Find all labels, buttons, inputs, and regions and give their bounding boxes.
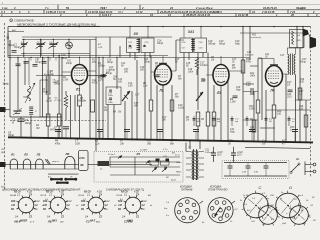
svg-text:2,1: 2,1	[48, 194, 53, 196]
IFT2 leads	[183, 27, 185, 38]
svg-text:1 зм: 1 зм	[2, 6, 7, 10]
svg-text:20,0: 20,0	[286, 97, 292, 99]
svg-text:+С23: +С23	[217, 152, 223, 154]
svg-text:0,01мк: 0,01мк	[200, 64, 208, 67]
socket 6И1П pins	[33, 208, 35, 209]
svg-text:R16: R16	[300, 79, 305, 81]
svg-text:ПИТАНИЕ: ПИТАНИЕ	[181, 189, 193, 192]
capacitor C3	[18, 118, 25, 120]
svg-text:90пф: 90пф	[42, 91, 48, 94]
electrolytic C23	[211, 152, 216, 154]
tube V4 top cap	[270, 64, 278, 66]
svg-text:+С24: +С24	[237, 151, 243, 154]
svg-text:(головной): (головной)	[250, 36, 261, 39]
dial cord blocks	[156, 159, 160, 162]
svg-text:Кт: Кт	[105, 209, 108, 211]
terminal bar 1	[51, 178, 61, 180]
osc rail A	[21, 52, 90, 54]
right horiz segments	[287, 47, 303, 49]
resistor R11	[212, 112, 216, 126]
IFT1 right box	[141, 38, 154, 53]
tube V4 grids	[268, 70, 280, 72]
mid horizontal y37	[22, 36, 172, 38]
tube V1 envelope	[72, 65, 88, 85]
tube V4 wires	[273, 87, 275, 106]
wire column x62	[61, 58, 63, 139]
svg-text:04,25,73,24: 04,25,73,24	[263, 6, 277, 10]
resistor R6	[170, 100, 174, 111]
grid wire V1 to gang	[88, 75, 102, 77]
V3 grid cap	[202, 79, 206, 81]
wire column x41	[40, 40, 42, 56]
svg-text:0,01мкФ: 0,01мкФ	[245, 54, 254, 57]
svg-text:6А7: 6А7	[90, 218, 96, 222]
svg-text:С9 2В: С9 2В	[116, 195, 123, 197]
antenna wire	[9, 40, 11, 117]
resistor R9	[196, 112, 200, 126]
left lower verticals	[17, 57, 19, 110]
svg-text:2,1: 2,1	[16, 194, 21, 196]
svg-text:С2Т: С2Т	[302, 59, 307, 61]
power connector tick	[200, 201, 204, 204]
ganged indicator	[66, 42, 73, 49]
svg-text:С12: С12	[109, 67, 114, 69]
svg-text:О: О	[289, 185, 292, 190]
dial box inner block	[98, 161, 110, 166]
tube V3 cathode	[217, 81, 225, 83]
svg-text:С12: С12	[106, 71, 111, 73]
svg-text:0,05: 0,05	[75, 142, 80, 145]
svg-text:40-240пф: 40-240пф	[44, 73, 54, 76]
resistor zigzag V3 grid	[195, 57, 199, 69]
svg-text:3300м: 3300м	[98, 66, 105, 68]
wire column x117	[116, 57, 118, 89]
socket 6Ж3 pins	[140, 208, 142, 209]
svg-text:АВ: АВ	[249, 118, 253, 121]
shunt capacitors row	[55, 129, 61, 131]
svg-text:С12: С12	[121, 63, 126, 65]
svg-text:Л1: Л1	[10, 152, 15, 156]
svg-text:180п: 180п	[188, 72, 194, 74]
svg-text:1М: 1М	[118, 112, 121, 114]
power transformer core	[193, 149, 195, 180]
svg-text:С13: С13	[118, 79, 123, 81]
svg-text:Л1б: Л1б	[22, 97, 28, 99]
tube V3 grids	[216, 71, 227, 73]
svg-text:3М: 3М	[36, 127, 39, 130]
svg-text:Ст4: Ст4	[35, 200, 41, 203]
svg-text:Л3 24: Л3 24	[77, 194, 85, 197]
svg-text:Выкл: Выкл	[171, 180, 177, 182]
tube V2 grids	[157, 69, 169, 71]
title line 1	[10, 19, 13, 22]
tube V2 wires	[151, 71, 155, 73]
svg-text:Кт: Кт	[35, 209, 38, 211]
tube V3 envelope	[213, 65, 229, 86]
tube V1 wires	[79, 58, 81, 65]
resistor R12	[241, 60, 245, 73]
svg-text:(4700пф): (4700пф)	[50, 129, 60, 132]
right verticals	[249, 27, 251, 60]
tube V1 grids	[74, 70, 85, 72]
svg-text:С22: С22	[247, 52, 252, 54]
power transformer leads	[186, 151, 191, 153]
base diagram b1	[244, 193, 269, 218]
svg-text:Л33: Л33	[296, 40, 302, 42]
svg-text:Кт: Кт	[67, 209, 70, 211]
svg-text:С20: С20	[236, 87, 241, 89]
coupling cap	[250, 88, 252, 95]
output transformer windings	[288, 54, 289, 57]
tone network box	[222, 161, 289, 179]
svg-text:24: 24	[149, 13, 153, 17]
svg-text:С22: С22	[246, 84, 251, 87]
wire column x46	[45, 76, 47, 95]
svg-text:С1Т: С1Т	[280, 55, 285, 57]
svg-text:С13: С13	[128, 83, 133, 85]
upper left short rail	[8, 31, 24, 33]
wire column x157	[156, 85, 158, 141]
osc section caps	[24, 61, 29, 63]
svg-text:ЛВ: ЛВ	[302, 223, 306, 225]
svg-text:Л2: Л2	[23, 152, 28, 156]
right resistor boxes	[298, 88, 302, 100]
node dots gang	[23, 39, 24, 40]
wire column x71	[70, 95, 72, 139]
output transformer leads	[287, 48, 289, 55]
fuse box	[79, 150, 89, 170]
coil L2 core	[29, 106, 33, 108]
svg-text:НВкл: НВкл	[176, 171, 182, 173]
svg-text:4,2В: 4,2В	[134, 191, 139, 194]
detector arrow	[196, 92, 203, 101]
svg-text:4,2В: 4,2В	[27, 191, 32, 194]
svg-text:ДВ: ДВ	[0, 152, 4, 154]
switch arrows	[118, 156, 122, 159]
IFT1 windings	[137, 39, 141, 41]
resistor R3 cathode	[78, 95, 82, 106]
right lower rail	[245, 147, 310, 148]
svg-text:С24: С24	[287, 93, 292, 96]
svg-text:3-з: 3-з	[166, 215, 169, 217]
svg-text:С: С	[259, 185, 262, 190]
svg-text:Кт: Кт	[142, 209, 145, 211]
box wires	[107, 105, 109, 140]
svg-text:0,05: 0,05	[128, 86, 133, 88]
svg-text:С1б: С1б	[107, 60, 112, 62]
svg-text:1М: 1М	[186, 120, 189, 122]
svg-text:Л3: Л3	[216, 91, 221, 95]
svg-text:1М: 1М	[104, 110, 107, 112]
switch wires	[110, 156, 180, 158]
margin block 1	[0, 107, 6, 112]
svg-text:Ст4: Ст4	[142, 200, 148, 203]
svg-text:12 м: 12 м	[175, 155, 180, 157]
svg-text:АВ-6: АВ-6	[13, 220, 21, 224]
svg-text:24: 24	[169, 6, 173, 10]
svg-text:Л4: Л4	[136, 152, 141, 156]
upper area short stubs	[9, 57, 11, 60]
svg-text:R3 С9: R3 С9	[84, 192, 91, 194]
svg-text:24В: 24В	[80, 204, 86, 207]
svg-text:9пф: 9пф	[230, 131, 235, 134]
svg-text:90пф: 90пф	[106, 72, 112, 75]
svg-text:С17: С17	[135, 95, 140, 97]
svg-text:24 7: 24 7	[101, 6, 108, 10]
socket 6К3 circle	[50, 197, 66, 213]
svg-text:30пф: 30пф	[144, 61, 150, 64]
svg-text:9пф: 9пф	[236, 89, 241, 92]
base diagram b2	[276, 193, 301, 218]
tube V1 anode	[75, 67, 85, 69]
svg-text:С1Т: С1Т	[162, 117, 167, 119]
svg-text:30пф: 30пф	[14, 46, 20, 49]
svg-text:90пф: 90пф	[25, 122, 31, 125]
svg-text:С4Т: С4Т	[124, 68, 129, 71]
wire column x120	[119, 46, 121, 57]
svg-text:240к: 240к	[249, 75, 256, 78]
tube V3 top line	[217, 68, 226, 70]
AVC dashed line	[10, 120, 106, 122]
svg-text:ГнВ: ГнВ	[251, 221, 255, 223]
dial cord box	[94, 152, 183, 183]
svg-text:R3 С9: R3 С9	[46, 192, 53, 194]
svg-text:С14: С14	[144, 58, 149, 61]
resistor R2	[57, 114, 61, 126]
svg-text:0,01мкФ: 0,01мкФ	[205, 151, 214, 154]
svg-text:1М: 1М	[211, 60, 214, 62]
bus junction dots	[30, 137, 32, 139]
svg-text:пф: пф	[235, 120, 238, 123]
grid line V1	[36, 75, 72, 77]
ground bus thick slanted	[8, 137, 313, 142]
svg-text:С16: С16	[188, 69, 193, 71]
terminal bar 3	[57, 182, 67, 184]
svg-text:Пк.: Пк.	[113, 79, 117, 81]
svg-text:0,5А: 0,5А	[79, 157, 84, 160]
left col caps	[7, 33, 9, 40]
socket 6И1П circle	[18, 197, 34, 213]
cap C7 bars	[63, 126, 69, 128]
gang stubs	[23, 53, 25, 57]
resistor R13	[256, 100, 260, 113]
trimmer C2	[14, 110, 22, 112]
svg-text:С7Т: С7Т	[134, 103, 139, 105]
svg-text:30пф: 30пф	[157, 42, 163, 45]
table rule 4	[0, 16, 320, 18]
tube V3 wires	[207, 74, 214, 76]
resistor R1	[46, 114, 50, 126]
tube V4 cathode	[270, 82, 278, 84]
wire column x99	[98, 57, 100, 139]
svg-text:запр.ж: запр.ж	[51, 161, 59, 163]
svg-text:45,2: 45,2	[118, 10, 124, 14]
svg-text:390: 390	[147, 142, 152, 145]
svg-text:0,01м: 0,01м	[178, 107, 185, 110]
IFT2 left box	[180, 38, 193, 53]
svg-text:С з: С з	[292, 119, 295, 121]
svg-text:Ф: Ф	[12, 121, 14, 124]
table rule 2	[0, 9, 320, 11]
terminal bar 2	[66, 178, 76, 180]
svg-text:2дВ: 2дВ	[154, 166, 159, 169]
svg-text:2 ч.н.ж.17ж.н: 2 ч.н.ж.17ж.н	[195, 6, 213, 10]
svg-text:С2Т: С2Т	[287, 82, 292, 84]
svg-text:30пф: 30пф	[53, 81, 59, 84]
variable capacitor C1	[23, 40, 25, 44]
cap C12 with arrow	[101, 75, 107, 77]
resistor R4 zigzag	[64, 95, 68, 108]
mains plug	[304, 162, 306, 176]
socket 6Ж3 circle	[125, 197, 141, 213]
svg-text:4700: 4700	[92, 82, 98, 85]
IFT1 leads	[129, 27, 131, 38]
table top faint rule	[0, 4, 320, 6]
resistor R5	[149, 100, 153, 111]
svg-text:160: 160	[277, 113, 282, 116]
power transformer right winding	[197, 151, 199, 154]
svg-text:24В: 24В	[117, 204, 123, 207]
svg-text:180п: 180п	[108, 102, 114, 104]
top supply bus	[8, 26, 310, 28]
svg-text:С15: С15	[186, 63, 191, 65]
svg-text:МЕЛКОВОЛНОВЫЙ 3 ТУСЛОВЫЕ: ДВ-: МЕЛКОВОЛНОВЫЙ 3 ТУСЛОВЫЕ: ДВ-МВ Д(70/186…	[17, 22, 96, 26]
svg-text:АНТ: АНТ	[11, 29, 17, 32]
svg-text:2,1: 2,1	[123, 194, 128, 196]
table ticks	[57, 5, 59, 10]
svg-text:ЛБ: ЛБ	[47, 220, 52, 224]
svg-text:6К3: 6К3	[52, 218, 57, 222]
tone caps	[228, 165, 233, 167]
svg-text:ХХ: ХХ	[133, 32, 139, 36]
coil L1 adjustable	[28, 57, 30, 85]
speaker field box	[290, 30, 305, 48]
heater hatch mark	[45, 159, 49, 164]
tube V2 envelope	[155, 64, 172, 85]
extra caps mid	[101, 74, 106, 76]
svg-text:0,5М: 0,5М	[249, 108, 254, 111]
svg-text:Ст4: Ст4	[67, 200, 73, 203]
svg-text:НВкл: НВкл	[176, 162, 182, 164]
svg-text:9пф: 9пф	[235, 43, 240, 46]
wire column x96	[95, 37, 97, 151]
right horiz extra	[250, 65, 258, 67]
base diagram b3	[259, 206, 278, 225]
svg-text:30мф: 30мф	[3, 83, 9, 86]
upper right long line	[240, 32, 308, 34]
svg-text:20,0: 20,0	[236, 155, 242, 157]
wire column x243	[242, 27, 244, 142]
power connector circle	[175, 198, 200, 223]
svg-text:180п: 180п	[108, 95, 114, 97]
svg-text:R3 С9: R3 С9	[121, 192, 128, 194]
resistor box x90	[91, 100, 95, 112]
svg-text:4Вт: 4Вт	[96, 221, 101, 224]
svg-text:С15: С15	[175, 59, 180, 61]
svg-text:С17: С17	[232, 59, 237, 61]
svg-text:пф: пф	[217, 120, 220, 123]
left dashed border	[4, 23, 6, 190]
AGC box	[106, 87, 121, 105]
switch	[291, 164, 299, 172]
volume pot arrow	[122, 91, 130, 101]
IFT1 internal caps right	[144, 45, 146, 48]
socket 6К3 pins	[65, 208, 67, 209]
wire column x110	[109, 37, 111, 57]
osc rail B	[8, 55, 168, 57]
svg-text:35,45,27, 20 24 К 43: 35,45,27, 20 24 К 43	[186, 13, 211, 17]
wire column x75	[74, 95, 76, 121]
svg-text:24 45 34: 24 45 34	[211, 10, 223, 14]
IFT2 right box	[194, 38, 207, 53]
right component row y114-126	[193, 116, 195, 126]
svg-text:ДнВ: ДнВ	[281, 223, 287, 225]
svg-text:С14: С14	[140, 66, 145, 69]
filament bus	[8, 163, 79, 165]
variable capacitor C3	[40, 40, 42, 44]
filament line 3	[48, 173, 79, 175]
wire x297 down	[296, 27, 298, 48]
svg-text:С21: С21	[205, 150, 210, 152]
svg-text:R2 4В: R2 4В	[10, 194, 17, 197]
svg-text:R1б: R1б	[11, 200, 16, 203]
svg-text:24В: 24В	[269, 204, 274, 207]
svg-text:470к: 470к	[246, 61, 252, 64]
svg-text:Лб: Лб	[65, 152, 70, 156]
speaker magnet	[303, 29, 309, 37]
svg-text:2,1: 2,1	[86, 194, 91, 196]
socket 6А7 pins	[103, 208, 105, 209]
svg-text:12 мВТ: 12 мВТ	[140, 150, 148, 152]
svg-text:30пф: 30пф	[8, 134, 14, 137]
power transformer left winding	[192, 151, 194, 154]
svg-text:МГц: МГц	[1, 187, 6, 189]
svg-text:(1,2к): (1,2к)	[46, 101, 52, 103]
svg-text:30пф: 30пф	[35, 61, 41, 64]
svg-text:5,14 4 7: 5,14 4 7	[102, 13, 112, 17]
svg-text:Л2 С4: Л2 С4	[39, 194, 47, 197]
svg-text:ЗВ: ЗВ	[80, 164, 84, 167]
rail dots	[9, 57, 10, 58]
base diagram b4	[290, 206, 309, 225]
svg-text:2,2М: 2,2М	[97, 80, 103, 82]
wire column x90	[89, 40, 91, 140]
svg-text:24В: 24В	[10, 204, 16, 207]
svg-text:С2: С2	[86, 220, 90, 224]
variable capacitor C5	[52, 40, 54, 44]
electrolytic C24	[231, 152, 236, 154]
tone connector circle	[208, 198, 233, 223]
power transformer top leads	[189, 140, 191, 149]
svg-text:12 мкТ: 12 мкТ	[108, 154, 116, 156]
wire column x42	[42, 58, 44, 117]
left box leads	[6, 164, 9, 166]
svg-text:С21: С21	[265, 54, 270, 56]
svg-text:R12: R12	[250, 73, 255, 75]
svg-text:ОБЩЕЕ: ОБЩЕЕ	[296, 6, 306, 10]
wire column x50	[49, 76, 51, 95]
svg-text:470к: 470к	[55, 142, 61, 145]
svg-text:6И1П: 6И1П	[20, 218, 28, 222]
svg-text:2В: 2В	[312, 220, 316, 222]
svg-text:20,0: 20,0	[216, 155, 222, 157]
svg-text:ХХ1: ХХ1	[187, 30, 194, 34]
svg-text:18пф: 18пф	[66, 62, 72, 65]
svg-text:Ст4: Ст4	[105, 200, 111, 203]
svg-text:Л3: Л3	[36, 152, 41, 156]
field coil zigzag	[292, 31, 294, 45]
svg-text:56000м: 56000м	[78, 101, 86, 103]
